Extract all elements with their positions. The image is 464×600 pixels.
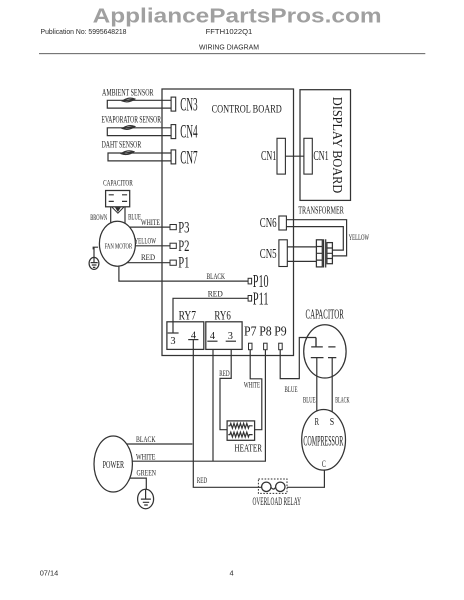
- relay RY6 box: [206, 322, 242, 350]
- DAHT sensor lens: [121, 151, 134, 155]
- svg-text:POWER: POWER: [103, 459, 125, 471]
- svg-text:RED: RED: [197, 476, 207, 485]
- svg-text:R: R: [315, 416, 320, 428]
- run capacitor body: [304, 325, 346, 378]
- svg-text:CN1: CN1: [261, 148, 276, 163]
- svg-text:RED: RED: [141, 253, 155, 262]
- wire white RY6 pin4 to neutral: [212, 349, 214, 461]
- connector P10: [248, 278, 252, 284]
- wire CN6 outer loop to transformer secondary: [286, 220, 346, 256]
- wire compressor C to overload relay: [287, 470, 324, 487]
- connector CN3: [171, 97, 176, 111]
- wire red fan to P1: [127, 262, 170, 264]
- wire blue capacitor to fan motor: [124, 207, 126, 224]
- connector P9: [279, 343, 283, 350]
- evaporator sensor body and wires to CN4: [107, 128, 171, 136]
- svg-text:WHITE: WHITE: [136, 452, 156, 461]
- ground symbol (fan motor): [89, 257, 99, 269]
- compressor M2 body: [302, 410, 346, 471]
- svg-text:BLUE: BLUE: [285, 385, 298, 394]
- svg-text:P1: P1: [178, 255, 189, 272]
- relay RY6 pin 4 bar: [207, 340, 217, 342]
- wire CN5 to transformer primary (upper): [287, 246, 316, 248]
- svg-text:Publication No: 5995648218: Publication No: 5995648218: [41, 27, 127, 36]
- wire blue P9 to run capacitor: [280, 338, 316, 379]
- connector P11: [248, 296, 252, 302]
- header rule: [39, 53, 425, 55]
- svg-text:BLACK: BLACK: [335, 395, 349, 404]
- DAHT sensor body and wires to CN7: [108, 153, 171, 161]
- svg-text:P11: P11: [253, 288, 269, 308]
- svg-text:WHITE: WHITE: [141, 218, 160, 227]
- wire red P11 to relay RY7 pin 3: [173, 298, 248, 333]
- svg-text:AMBIENT SENSOR: AMBIENT SENSOR: [102, 87, 154, 97]
- svg-text:WIRING DIAGRAM: WIRING DIAGRAM: [199, 43, 259, 52]
- svg-text:CN7: CN7: [180, 148, 197, 168]
- control board outline: [162, 89, 294, 356]
- svg-text:HEATER: HEATER: [235, 443, 263, 454]
- wire CN5 to transformer primary (lower): [287, 260, 316, 262]
- fan motor M1: [99, 221, 135, 266]
- power supply label: [94, 436, 132, 492]
- svg-text:OVERLOAD RELAY: OVERLOAD RELAY: [253, 496, 302, 508]
- svg-text:CONTROL BOARD: CONTROL BOARD: [212, 102, 283, 116]
- ground symbol (power): [138, 489, 154, 508]
- transformer T1 primary winding: [316, 240, 322, 267]
- svg-text:CN6: CN6: [260, 215, 277, 230]
- svg-text:YELLOW: YELLOW: [135, 236, 157, 245]
- svg-text:CN4: CN4: [180, 123, 197, 143]
- connector CN4: [171, 125, 176, 139]
- ambient sensor body and wires to CN3: [107, 100, 171, 108]
- svg-text:RED: RED: [208, 290, 223, 299]
- heater HR1 box: [227, 421, 255, 440]
- wire yellow fan to P2: [135, 245, 170, 247]
- svg-text:3: 3: [170, 335, 176, 347]
- connector CN6: [279, 216, 287, 230]
- svg-text:CAPACITOR: CAPACITOR: [306, 306, 344, 321]
- svg-text:CAPACITOR: CAPACITOR: [103, 178, 133, 188]
- svg-text:4: 4: [230, 569, 234, 578]
- wire white P7 to heater: [250, 350, 262, 430]
- svg-text:WHITE: WHITE: [244, 381, 260, 390]
- wire CN6 inner loop to transformer secondary: [286, 227, 343, 251]
- svg-text:BLACK: BLACK: [136, 435, 156, 444]
- relay RY7 pin 3 bar: [168, 332, 179, 334]
- evaporator sensor lens: [122, 126, 135, 130]
- svg-text:EVAPORATOR SENSOR: EVAPORATOR SENSOR: [102, 114, 162, 124]
- wire brown capacitor to fan motor: [110, 207, 112, 224]
- connector CN5: [279, 240, 287, 267]
- wire blue capacitor to compressor R: [316, 358, 318, 412]
- svg-text:P8: P8: [259, 324, 272, 339]
- relay RY7 pin 4 bar: [188, 339, 198, 341]
- connector CN1 on display board: [304, 138, 312, 174]
- svg-text:TRANSFORMER: TRANSFORMER: [298, 205, 344, 217]
- connector CN7: [171, 150, 176, 164]
- svg-text:CN3: CN3: [180, 96, 197, 116]
- wire black capacitor to compressor S: [331, 358, 333, 412]
- fan motor chassis ground stub: [93, 247, 98, 257]
- wire white P8 to power: [132, 350, 265, 462]
- svg-text:RY6: RY6: [214, 307, 231, 322]
- wire white fan to P3: [130, 226, 171, 228]
- ambient sensor lens: [122, 98, 135, 102]
- svg-text:07/14: 07/14: [40, 569, 59, 578]
- connector P8: [264, 343, 268, 350]
- svg-text:P9: P9: [274, 324, 287, 339]
- run capacitor terminal stem (left): [315, 338, 317, 347]
- fan capacitor wedge: [115, 207, 121, 212]
- connector CN1 on control board: [277, 138, 285, 174]
- display board outline: [300, 90, 351, 201]
- svg-text:C: C: [322, 460, 326, 470]
- fan capacitor cable strain V: [112, 207, 124, 213]
- relay RY6 pin 3 bar: [226, 340, 236, 342]
- svg-text:4: 4: [210, 330, 216, 342]
- wire green power to ground: [130, 478, 147, 489]
- svg-text:RED: RED: [219, 369, 229, 378]
- svg-text:COMPRESSOR: COMPRESSOR: [303, 433, 343, 449]
- svg-text:AppliancePartsPros.com: AppliancePartsPros.com: [93, 4, 382, 27]
- svg-text:BLUE: BLUE: [303, 395, 316, 404]
- transformer T1 core: [324, 239, 326, 267]
- connector P3: [170, 225, 176, 230]
- svg-text:CN1: CN1: [313, 148, 328, 163]
- svg-text:FFTH1022Q1: FFTH1022Q1: [206, 29, 253, 36]
- fan capacitor plates: [109, 195, 127, 202]
- run capacitor plates: [311, 347, 337, 358]
- svg-text:3: 3: [228, 330, 234, 342]
- wire black fan motor to P10: [119, 266, 248, 281]
- svg-text:RY7: RY7: [179, 307, 197, 322]
- heater resistor element (top): [228, 423, 252, 428]
- heater resistor element (bottom): [228, 432, 252, 437]
- svg-text:FAN MOTOR: FAN MOTOR: [105, 243, 133, 251]
- overload relay element circles: [262, 482, 285, 491]
- svg-text:BROWN: BROWN: [90, 213, 107, 222]
- wire red RY6 pin3 to heater: [220, 349, 231, 429]
- svg-text:BLUE: BLUE: [128, 213, 141, 222]
- transformer T1 secondary winding: [327, 243, 333, 264]
- svg-text:CN5: CN5: [260, 246, 277, 261]
- connector P2: [170, 243, 176, 248]
- connector P1: [170, 260, 176, 265]
- connector P7: [249, 343, 253, 350]
- svg-text:DAHT SENSOR: DAHT SENSOR: [102, 140, 142, 150]
- wire black power to RY7 pin4: [127, 443, 193, 445]
- overload relay dashed box: [258, 479, 287, 493]
- svg-text:P2: P2: [178, 238, 189, 255]
- wire RY7 pin4 down to compressor feed: [193, 340, 261, 488]
- svg-text:YELLOW: YELLOW: [349, 233, 370, 242]
- svg-text:P7: P7: [244, 324, 257, 339]
- svg-text:DISPLAY BOARD: DISPLAY BOARD: [329, 97, 344, 193]
- svg-text:P3: P3: [178, 219, 189, 236]
- wire CN1 to CN1: [285, 155, 304, 157]
- fan capacitor body: [106, 191, 130, 207]
- svg-text:S: S: [330, 416, 334, 428]
- relay RY7 box: [167, 322, 204, 350]
- svg-text:BLACK: BLACK: [207, 272, 226, 281]
- svg-text:GREEN: GREEN: [137, 468, 157, 477]
